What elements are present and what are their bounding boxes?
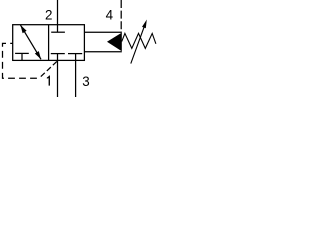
valve position divider [48, 25, 50, 61]
adjustment arrow through spring [131, 20, 147, 64]
wire port 3 line [75, 60, 77, 97]
flow path arrow in left square [20, 25, 41, 59]
svg-text:2: 2 [45, 7, 52, 22]
wire dashed pilot line from valve left side [3, 43, 39, 78]
blocked port symbol left square [15, 53, 29, 60]
wire spring chamber bottom [84, 51, 121, 53]
valve body V1 envelope [13, 25, 85, 61]
svg-text:3: 3 [82, 74, 89, 89]
wire spring chamber top [84, 31, 121, 33]
svg-text:4: 4 [106, 8, 114, 23]
spring (adjustable) [122, 33, 156, 48]
wire dashed pilot line diagonal to port 1 [41, 61, 58, 77]
wire port 1 line [57, 60, 59, 97]
wire port 2 line [57, 0, 59, 25]
label port 1 [47, 76, 50, 86]
pilot piston solid triangle [107, 33, 122, 52]
blocked port 3 symbol [68, 54, 82, 61]
blocked port 1 symbol [51, 54, 65, 61]
blocked port 2 symbol [51, 25, 65, 33]
wire dashed drain line port 4 [120, 0, 122, 32]
